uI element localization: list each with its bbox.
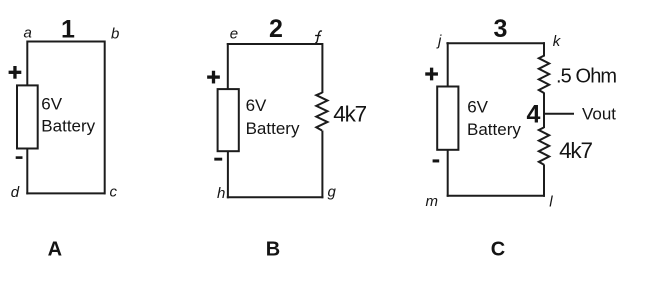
svg-text:4k7: 4k7	[559, 138, 592, 163]
svg-text:C: C	[491, 239, 505, 261]
svg-text:h: h	[217, 185, 225, 202]
battery B2 (6V) body	[218, 89, 239, 151]
resistor R1 4k7 zigzag	[316, 93, 327, 131]
svg-text:e: e	[230, 25, 238, 42]
svg-text:1: 1	[61, 16, 75, 44]
svg-text:m: m	[426, 193, 439, 210]
battery - polarity	[214, 158, 222, 161]
wire battery bottom to h	[227, 150, 229, 198]
wire battery bottom to m	[447, 148, 449, 197]
svg-text:4k7: 4k7	[333, 102, 366, 127]
svg-text:Battery: Battery	[41, 116, 95, 135]
wire right k to resistor .5 Ohm top	[543, 42, 545, 56]
wire left e to battery top	[227, 43, 229, 90]
wire right f to resistor top	[321, 43, 323, 93]
svg-text:3: 3	[494, 15, 508, 43]
battery - polarity	[16, 156, 23, 159]
battery + polarity	[9, 66, 22, 79]
svg-text:6V: 6V	[467, 97, 488, 116]
wire resistor bottom to g	[321, 131, 323, 199]
wire between resistors (node 4 region)	[543, 93, 545, 129]
svg-text:a: a	[24, 25, 32, 42]
battery + polarity	[425, 68, 438, 81]
node f	[315, 31, 322, 43]
svg-text:6V: 6V	[246, 96, 267, 115]
svg-text:g: g	[328, 184, 337, 201]
svg-text:Vout: Vout	[582, 105, 616, 124]
svg-text:A: A	[48, 238, 62, 260]
svg-text:d: d	[11, 184, 20, 201]
svg-text:c: c	[110, 184, 118, 201]
wire Vout tap from node 4	[544, 113, 574, 115]
svg-text:Battery: Battery	[246, 119, 300, 138]
svg-text:2: 2	[269, 15, 283, 43]
wire right b-c	[104, 41, 106, 195]
svg-text:.5 Ohm: .5 Ohm	[556, 65, 616, 87]
svg-text:6V: 6V	[41, 95, 62, 114]
resistor R3 4k7 zigzag	[539, 127, 549, 164]
svg-text:B: B	[266, 239, 280, 261]
wire bottom m-l	[447, 195, 545, 197]
svg-text:Battery: Battery	[467, 120, 521, 139]
wire bottom h-g	[227, 196, 324, 198]
wire top j-k	[446, 42, 545, 44]
wire top a-b	[27, 41, 106, 43]
resistor R2 .5 Ohm zigzag	[539, 56, 549, 93]
svg-text:b: b	[111, 26, 119, 43]
wire battery bottom to d	[26, 147, 28, 194]
wire bottom d-c	[26, 192, 105, 194]
battery - polarity	[433, 159, 440, 162]
wire left a to battery top	[26, 41, 28, 88]
wire resistor bottom to l	[543, 165, 545, 197]
battery B1 (6V) body	[17, 85, 38, 148]
wire left j to battery top	[447, 42, 449, 88]
battery + polarity	[207, 71, 220, 84]
svg-text:4: 4	[526, 100, 540, 128]
battery B3 (6V) body	[437, 87, 458, 150]
wire top e-f	[227, 43, 323, 45]
